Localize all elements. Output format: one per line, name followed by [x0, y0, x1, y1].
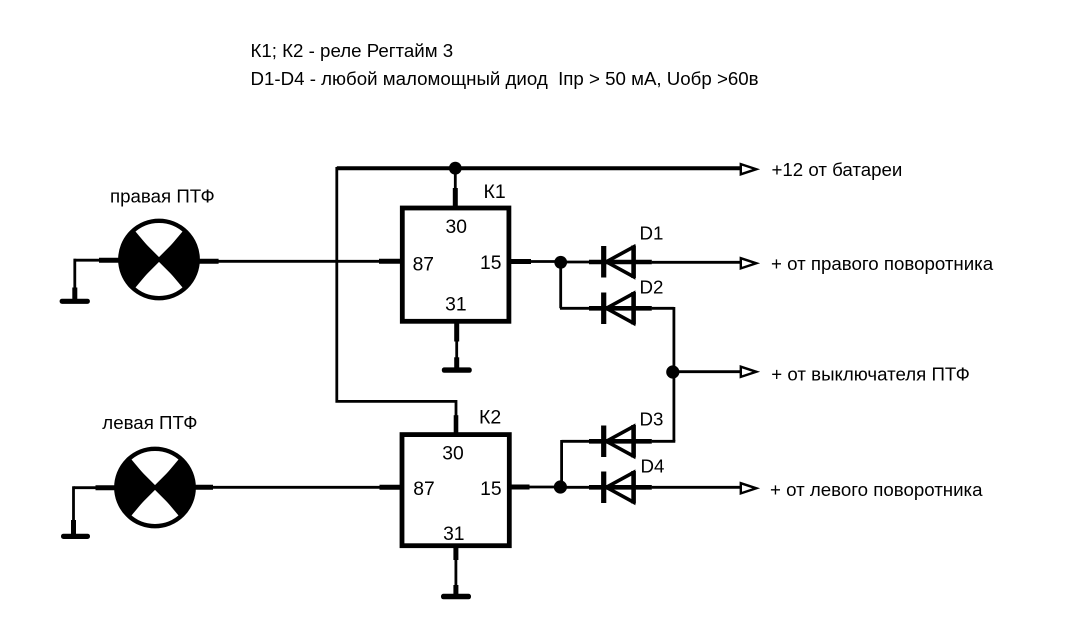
- node junction dot above K1 pin 30: [449, 162, 462, 175]
- relay K2 body: [402, 435, 509, 546]
- wire D4 to arrow: [652, 486, 741, 489]
- wire lamp1 right stub: [199, 259, 219, 264]
- relay K1 body: [402, 208, 509, 321]
- terminal arrow + от выключателя ПТФ: [741, 367, 757, 377]
- wire K2 pin 15 stub: [509, 485, 530, 490]
- wire lamp2 to K2 pin 87: [212, 486, 381, 489]
- wire lamp2 ground drop: [72, 486, 75, 521]
- wire K2 pin 31 to ground: [453, 547, 458, 560]
- svg-text:левая ПТФ: левая ПТФ: [102, 412, 197, 433]
- ground lamp2: [61, 534, 90, 539]
- wire D1 to arrow: [652, 261, 741, 264]
- svg-text:D4: D4: [641, 456, 665, 477]
- wire rail drop to K2: [335, 167, 456, 403]
- wire dot down to D2: [560, 262, 590, 308]
- wire lamp1 to K1 pin 87: [218, 260, 381, 263]
- wire D2 to PTF bus: [652, 307, 674, 372]
- svg-text:15: 15: [480, 479, 501, 500]
- svg-text:+ от выключателя ПТФ: + от выключателя ПТФ: [771, 363, 970, 384]
- svg-text:D1: D1: [640, 223, 664, 244]
- wire K1 pin 31 to ground: [454, 323, 459, 342]
- svg-text:D2: D2: [640, 277, 664, 298]
- lamp right fog light (правая ПТФ): [120, 221, 197, 298]
- wire D3 cathode to K2 dot branch: [562, 440, 590, 487]
- wire dot to D1: [566, 261, 590, 264]
- terminal arrow +12 от батареи: [741, 164, 757, 174]
- ground K1: [442, 367, 472, 372]
- node dot K2 pin 15: [554, 480, 567, 493]
- svg-text:87: 87: [413, 479, 434, 500]
- wire D3 anode to bus: [652, 440, 676, 443]
- svg-text:D3: D3: [640, 409, 664, 430]
- ground K2: [441, 594, 471, 600]
- ground lamp1: [60, 299, 90, 304]
- svg-text:правая ПТФ: правая ПТФ: [110, 186, 215, 207]
- svg-text:К1: К1: [484, 181, 506, 203]
- svg-text:+ от правого поворотника: + от правого поворотника: [771, 253, 994, 274]
- svg-text:D1-D4 - любой маломощный диод: D1-D4 - любой маломощный диод Iпр > 50 м…: [251, 68, 759, 89]
- diode D4: [589, 471, 652, 504]
- svg-text:30: 30: [442, 444, 463, 465]
- wire PTF dot to arrow: [679, 370, 741, 373]
- wire dot to D4: [566, 486, 590, 489]
- svg-text:31: 31: [443, 524, 464, 545]
- wire K1 pin 15 stub: [510, 259, 532, 264]
- wire lamp2 left stub: [96, 485, 117, 490]
- svg-text:К2: К2: [479, 407, 501, 429]
- svg-text:+12 от батареи: +12 от батареи: [772, 159, 903, 180]
- svg-text:+ от левого поворотника: + от левого поворотника: [770, 479, 983, 500]
- diode D1: [589, 246, 652, 279]
- svg-text:К1; К2 - реле Регтайм 3: К1; К2 - реле Регтайм 3: [251, 40, 454, 61]
- svg-text:15: 15: [480, 253, 501, 274]
- node dot PTF switch: [666, 365, 679, 378]
- wire lamp1 ground drop: [73, 259, 76, 289]
- terminal arrow + от правого поворотника: [741, 258, 757, 268]
- wire lamp2 right stub: [194, 485, 214, 490]
- wire lamp1 left stub: [99, 258, 119, 263]
- top +12 rail wire: [337, 166, 740, 170]
- svg-text:30: 30: [445, 217, 466, 238]
- terminal arrow + от левого поворотника: [741, 483, 757, 493]
- svg-text:87: 87: [413, 255, 434, 276]
- wire K1 pin 30 to rail: [454, 168, 457, 189]
- diode D2: [589, 292, 652, 325]
- wire K2 pin 30 riser: [455, 400, 458, 416]
- diode D3: [589, 425, 652, 458]
- node dot K1 pin 15: [554, 256, 567, 269]
- svg-text:31: 31: [445, 295, 466, 316]
- lamp left fog light (левая ПТФ): [116, 449, 193, 526]
- wire PTF bus down to D3: [673, 372, 676, 441]
